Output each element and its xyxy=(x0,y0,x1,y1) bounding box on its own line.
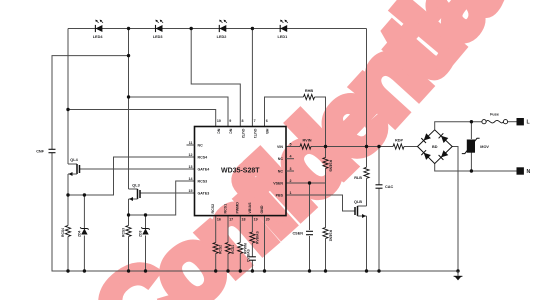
svg-text:RVBIAS: RVBIAS xyxy=(255,231,259,244)
wire GATE3 pin 15 to QL3 gate xyxy=(141,192,195,194)
svg-text:NC: NC xyxy=(278,157,284,161)
svg-text:20: 20 xyxy=(266,218,270,222)
wire RDP to bridge xyxy=(404,146,418,148)
wire node LED3/LED2 to IC pin 8 (OUT2) xyxy=(191,29,240,127)
resistor RCS1 xyxy=(225,243,235,255)
svg-text:RLB: RLB xyxy=(354,176,362,180)
junction rail RCS4 xyxy=(66,269,69,272)
wire node LED2/LED1 to IC pin 7 (OUT1) xyxy=(251,29,253,127)
wire RLB top lead xyxy=(366,147,368,168)
wire ZD4 to rail xyxy=(83,236,85,272)
wire GND pin 20 to rail xyxy=(264,216,266,271)
junction VIN/RSENS node xyxy=(324,145,327,148)
svg-text:MOV: MOV xyxy=(480,145,489,149)
svg-text:RCS1: RCS1 xyxy=(223,204,227,214)
terminal L xyxy=(517,118,531,126)
svg-text:7: 7 xyxy=(254,119,256,123)
junction ZD3 top xyxy=(144,213,147,216)
svg-text:LED4: LED4 xyxy=(93,35,104,39)
resistor RSEN2 xyxy=(323,228,333,242)
wire RSENS top lead xyxy=(325,147,327,158)
svg-text:OUT2: OUT2 xyxy=(241,129,245,139)
junction rail ZD4 xyxy=(83,269,86,272)
wire MOV bottom xyxy=(470,153,472,172)
capacitor CVBIAS xyxy=(246,248,256,262)
svg-text:LED3: LED3 xyxy=(153,35,163,39)
svg-text:RCS3: RCS3 xyxy=(198,180,208,184)
svg-text:Fuse: Fuse xyxy=(490,113,499,117)
svg-text:RCS4: RCS4 xyxy=(61,228,65,237)
svg-text:PWMD: PWMD xyxy=(236,202,240,214)
junction QL4 source node xyxy=(66,193,69,196)
IC left pin labels xyxy=(187,141,210,196)
resistor RHB xyxy=(304,89,315,100)
junction rail CSEN xyxy=(308,269,311,272)
svg-text:CSEN: CSEN xyxy=(292,232,303,236)
svg-text:QLB: QLB xyxy=(354,200,362,204)
svg-text:VBIAS: VBIAS xyxy=(248,202,252,214)
svg-text:CNF: CNF xyxy=(36,150,44,154)
svg-text:LED2: LED2 xyxy=(217,35,227,39)
wire RSENS bottom to VSEN row xyxy=(325,168,327,183)
capacitor CSEN xyxy=(292,231,313,235)
junction CNF branch xyxy=(127,54,130,57)
resistor RVBIAS xyxy=(250,231,260,244)
svg-text:GND: GND xyxy=(260,205,264,213)
junction QL3 source node xyxy=(127,213,130,216)
svg-text:14: 14 xyxy=(189,177,193,181)
svg-text:CAC: CAC xyxy=(385,185,393,189)
IC right pin labels xyxy=(273,142,294,197)
wire VBIAS pin 19 chain xyxy=(251,216,253,271)
wire MOV top xyxy=(470,122,472,139)
svg-text:LED1: LED1 xyxy=(278,35,288,39)
svg-text:GATE3: GATE3 xyxy=(198,192,210,196)
wire RCS4 pin 12 to QL4 source node xyxy=(68,157,195,195)
svg-text:NC: NC xyxy=(278,170,284,174)
svg-text:3: 3 xyxy=(290,167,292,171)
wire CNF bottom to ground rail xyxy=(52,153,68,271)
junction LED2/LED1 node xyxy=(251,27,254,30)
svg-text:HB: HB xyxy=(265,129,269,135)
junction rail ZD3 xyxy=(144,269,147,272)
svg-text:QL4: QL4 xyxy=(70,158,78,162)
svg-text:ZD4: ZD4 xyxy=(78,230,82,237)
junction VIN/RLB node xyxy=(365,145,368,148)
svg-text:RDP: RDP xyxy=(395,139,403,143)
varistor MOV xyxy=(462,138,490,153)
wire CAC to rail xyxy=(378,189,380,272)
junction rail GND pin xyxy=(263,269,266,272)
wire QLB source to rail xyxy=(366,216,368,271)
svg-text:10: 10 xyxy=(217,119,221,123)
wire RPWM pin 18 chain xyxy=(239,216,241,271)
wire QL4 source down xyxy=(67,174,69,195)
transistor QL4 xyxy=(68,158,80,176)
resistor RVIN xyxy=(300,139,312,150)
wire GATE4 pin 13 to QL4 gate xyxy=(80,168,195,170)
wire RCS4 to rail xyxy=(67,237,69,272)
junction ZD4 top xyxy=(83,193,86,196)
ground xyxy=(454,271,463,280)
svg-text:5: 5 xyxy=(290,142,292,146)
svg-text:16: 16 xyxy=(217,218,221,222)
svg-text:RVIN: RVIN xyxy=(302,139,311,143)
junction MOV top node xyxy=(470,120,473,123)
bridge rectifier BD xyxy=(418,130,453,164)
wire RVIN to RDP xyxy=(311,146,393,148)
svg-text:RCS2: RCS2 xyxy=(211,204,215,214)
wire HB pin 6 to RHB xyxy=(265,97,304,127)
svg-text:2: 2 xyxy=(290,179,292,183)
diode LED1 xyxy=(278,20,288,40)
svg-text:RCS4: RCS4 xyxy=(198,156,208,160)
svg-text:12: 12 xyxy=(189,153,193,157)
resistor RDP xyxy=(393,139,404,150)
svg-text:6: 6 xyxy=(266,119,268,123)
svg-text:QL3: QL3 xyxy=(132,184,139,188)
wire bridge negative to ground xyxy=(452,147,458,272)
wire RCS3 chain xyxy=(128,215,130,226)
wire QL3 source down xyxy=(128,199,130,215)
wire node LED4/LED3 to IC pin 9 xyxy=(129,97,229,127)
svg-text:PBS: PBS xyxy=(276,194,284,198)
wire RCS2 pin 16 chain xyxy=(215,216,217,271)
svg-text:NC: NC xyxy=(198,144,204,148)
wire LED4 anode drop to QL4 drain xyxy=(67,29,69,165)
junction rail RCS3 xyxy=(127,269,130,272)
svg-text:VIN: VIN xyxy=(277,145,283,149)
wire ZD3 to rail xyxy=(145,236,147,272)
junction rail RCS2 xyxy=(214,269,217,272)
wire PBS pin 1 to QLB gate xyxy=(286,195,355,211)
svg-text:OUT1: OUT1 xyxy=(253,129,257,139)
svg-text:RCS2: RCS2 xyxy=(219,245,223,254)
svg-text:4: 4 xyxy=(290,155,292,159)
junction QL4 drain branch xyxy=(66,108,69,111)
svg-text:WD35-S28T: WD35-S28T xyxy=(221,167,260,174)
junction rail RPWM xyxy=(239,269,242,272)
svg-text:RPWM: RPWM xyxy=(243,243,247,254)
wire VIN pin 5 to RVIN xyxy=(286,146,300,148)
wire RCS3 to rail xyxy=(128,237,130,272)
wire CSEN to rail xyxy=(309,236,311,271)
wire LED string right end down to VIN row xyxy=(366,29,368,147)
junction rail CAC xyxy=(377,269,380,272)
IC bottom pin labels xyxy=(211,202,270,222)
svg-text:9: 9 xyxy=(229,119,231,123)
diode LED3 xyxy=(153,20,163,40)
wire node LED4/QL4 to IC pin 10 xyxy=(68,110,216,127)
svg-text:13: 13 xyxy=(189,165,193,169)
wire bridge bottom to N terminal xyxy=(435,164,517,171)
junction VIN/CAC node xyxy=(377,145,380,148)
svg-text:19: 19 xyxy=(254,218,258,222)
transistor QLB xyxy=(354,200,367,218)
junction rail RSEN2 xyxy=(324,269,327,272)
svg-text:RCS1: RCS1 xyxy=(231,245,235,254)
svg-text:RSENS: RSENS xyxy=(329,160,333,172)
svg-text:RSEN2: RSEN2 xyxy=(329,230,333,241)
wire LED string top rail xyxy=(68,28,367,30)
wire RCS4 chain xyxy=(67,195,69,226)
junction rail ground node xyxy=(456,269,459,272)
wire LED4/LED3 node vertical xyxy=(128,29,130,190)
svg-text:GATE4: GATE4 xyxy=(198,168,210,172)
wire node to CNF xyxy=(52,56,129,149)
terminal N xyxy=(517,167,531,175)
wire bridge top to fuse xyxy=(435,122,482,130)
wire RSEN2 to rail xyxy=(325,239,327,272)
wire ZD3 chain xyxy=(145,215,147,228)
diode LED2 xyxy=(217,20,227,40)
wire RLB bottom to QLB drain xyxy=(366,179,368,207)
resistor RCS4 xyxy=(61,226,71,238)
svg-text:15: 15 xyxy=(189,189,193,193)
IC top pin labels xyxy=(216,119,269,138)
wire CAC chain top xyxy=(378,147,380,185)
transistor QL3 xyxy=(129,184,141,202)
fuse F1 xyxy=(482,113,508,124)
svg-text:NC: NC xyxy=(229,129,233,135)
wire RSEN2 chain top xyxy=(325,183,327,228)
capacitor CAC xyxy=(376,185,394,189)
junction rail RCS1 xyxy=(226,269,229,272)
svg-text:NC: NC xyxy=(216,129,220,135)
wire RCS1 pin 17 chain xyxy=(227,216,229,271)
zener diode ZD3 xyxy=(139,227,150,237)
junction rail CVBIAS xyxy=(251,269,254,272)
svg-text:11: 11 xyxy=(189,141,193,145)
wire CSEN chain xyxy=(309,183,311,230)
resistor RCS2 xyxy=(213,243,223,255)
zener diode ZD4 xyxy=(78,227,89,237)
capacitor CNF xyxy=(36,149,55,153)
wire ZD4 chain xyxy=(83,195,85,228)
resistor RSENS xyxy=(323,158,333,173)
svg-text:RCS3: RCS3 xyxy=(122,228,126,237)
wire RCS3 pin 14 to QL3 source node xyxy=(129,181,195,215)
resistor RPWM xyxy=(238,243,248,255)
svg-text:RHB: RHB xyxy=(305,89,313,93)
svg-text:8: 8 xyxy=(242,119,244,123)
junction LED4/LED3 node xyxy=(127,27,130,30)
diode LED4 xyxy=(93,20,104,40)
svg-text:BD: BD xyxy=(432,145,438,149)
junction VSEN/CSEN node xyxy=(308,181,311,184)
resistor RCS3 xyxy=(122,226,132,238)
svg-text:18: 18 xyxy=(242,218,246,222)
junction LED3/LED2 node xyxy=(190,27,193,30)
svg-text:VSEN: VSEN xyxy=(273,182,283,186)
junction rail QLB xyxy=(365,269,368,272)
ground rail xyxy=(68,270,458,272)
junction MOV bottom node xyxy=(470,169,473,172)
svg-text:ZD3: ZD3 xyxy=(139,230,143,237)
wire fuse to L terminal xyxy=(508,121,517,123)
resistor RLB xyxy=(354,167,369,180)
svg-text:1: 1 xyxy=(290,191,292,195)
junction OUT3 branch xyxy=(127,95,130,98)
svg-text:17: 17 xyxy=(229,218,233,222)
wire VSEN pin 2 row xyxy=(286,182,326,184)
wire RHB to VIN node xyxy=(315,97,326,147)
op-amp U1 IC WD35-S28T body xyxy=(195,127,287,216)
svg-text:N: N xyxy=(527,169,531,175)
